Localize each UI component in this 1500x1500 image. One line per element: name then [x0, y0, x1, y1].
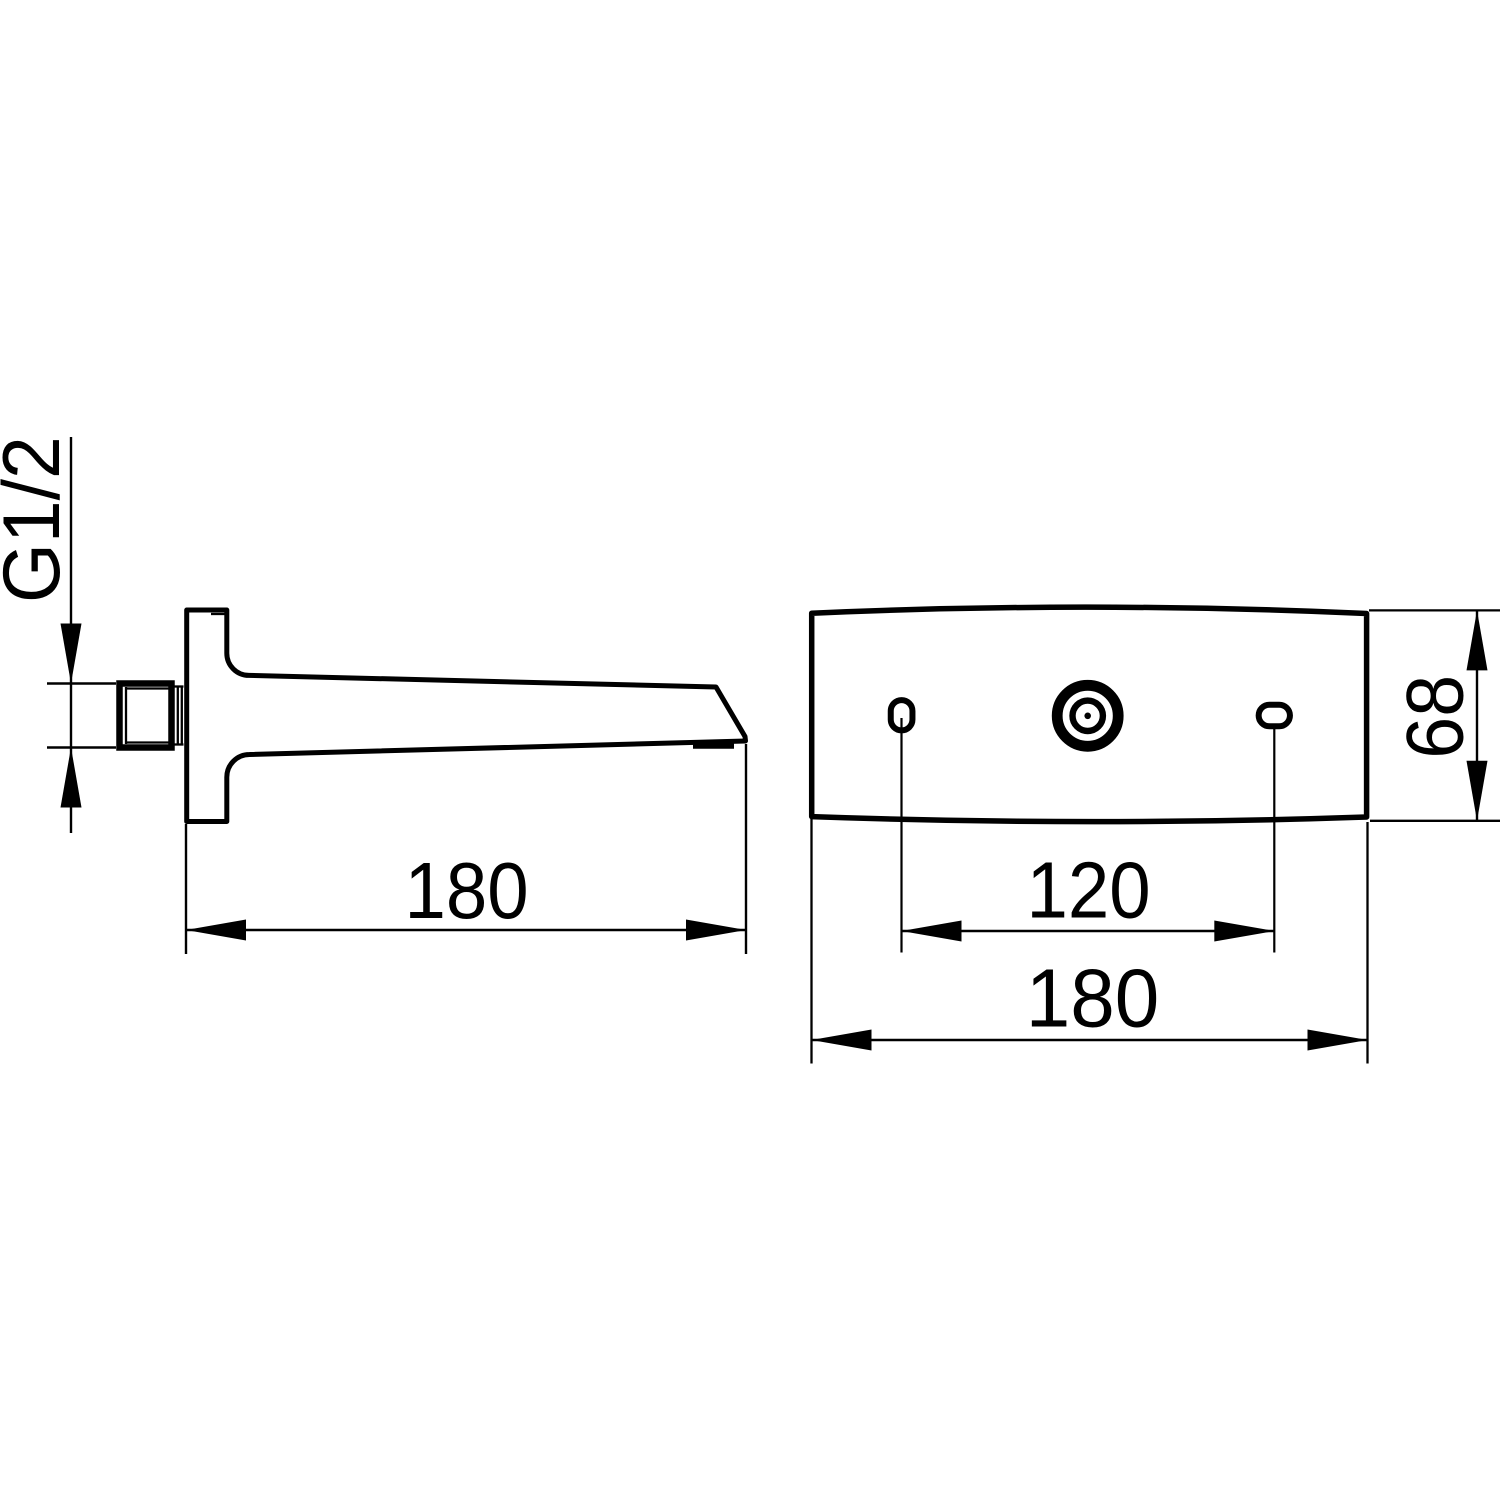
- svg-text:180: 180: [404, 847, 528, 936]
- svg-text:120: 120: [1026, 846, 1150, 935]
- svg-text:G1/2: G1/2: [0, 436, 76, 603]
- svg-text:180: 180: [1026, 952, 1160, 1045]
- svg-text:68: 68: [1389, 675, 1480, 759]
